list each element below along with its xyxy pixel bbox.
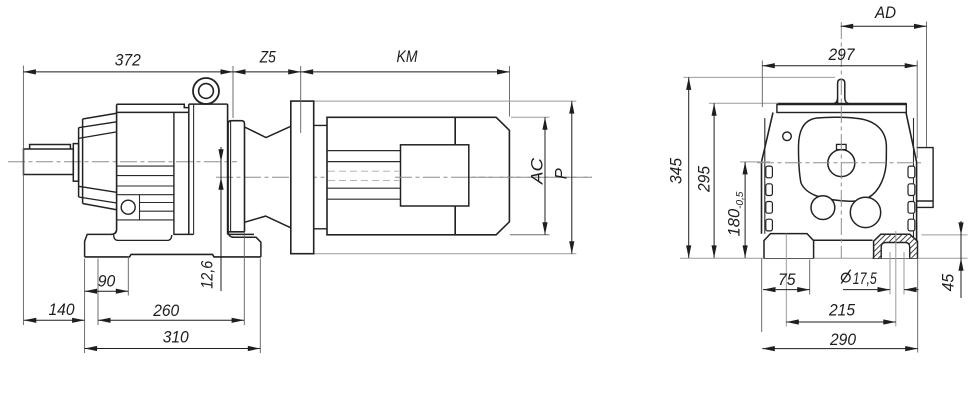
body outline right bbox=[906, 113, 917, 241]
svg-text:12,6: 12,6 bbox=[199, 260, 217, 289]
svg-text:17,5: 17,5 bbox=[853, 270, 878, 288]
svg-text:345: 345 bbox=[668, 157, 686, 184]
housing inner wall bbox=[173, 112, 175, 235]
ground extension line bbox=[680, 257, 968, 259]
left foot bolt centerline bbox=[785, 234, 787, 327]
dimension 90 bbox=[85, 290, 129, 292]
side tabs right bbox=[908, 166, 915, 231]
bearing cover face bbox=[78, 128, 80, 197]
oil plug box bbox=[139, 195, 141, 220]
housing rib lines bbox=[117, 166, 174, 220]
dimension 297 bbox=[762, 65, 917, 67]
cover blob bbox=[798, 117, 886, 201]
dimension 45 bbox=[960, 221, 962, 298]
dimension d17,5 bbox=[843, 289, 919, 291]
small plug circle bbox=[783, 132, 792, 141]
right boss bolt centerline bbox=[895, 231, 897, 327]
dimension 75 bbox=[763, 289, 810, 291]
motor cooling fins bbox=[327, 151, 401, 200]
fan cover bbox=[455, 117, 509, 235]
svg-text:90: 90 bbox=[98, 273, 116, 291]
centerline: output shaft axis bbox=[8, 161, 237, 163]
lower-right shaft boss bbox=[850, 197, 880, 227]
ground line dark segments under feet bbox=[764, 257, 918, 259]
housing bottom line over foot bbox=[114, 235, 172, 240]
svg-text:75: 75 bbox=[778, 271, 796, 289]
svg-text:KM: KM bbox=[397, 48, 418, 66]
extension lines bbox=[22, 66, 24, 326]
dimension KM bbox=[301, 71, 510, 73]
terminal box bbox=[401, 145, 469, 206]
svg-text:290: 290 bbox=[829, 331, 857, 349]
centerline: motor axis bbox=[216, 176, 592, 178]
motor flange edge behind (right side) bbox=[917, 148, 934, 208]
right foot bolt boss (sectioned) bbox=[874, 234, 918, 258]
key notch on output bore bbox=[837, 144, 847, 149]
bell cone top profile bbox=[245, 126, 291, 137]
inner wall lines bbox=[764, 118, 766, 234]
cone slants to housing (top) bbox=[83, 113, 117, 119]
dimension 215 bbox=[786, 321, 896, 323]
dimension 345 bbox=[688, 77, 690, 258]
boss hatching bbox=[850, 234, 936, 259]
dimension AC bbox=[544, 117, 546, 235]
dimension 295 bbox=[713, 103, 715, 258]
svg-text:AC: AC bbox=[529, 158, 547, 185]
dimension 12,6 axis offset bbox=[220, 147, 222, 291]
dimension AD bbox=[841, 25, 927, 27]
extension lines bbox=[684, 76, 836, 78]
vertical centerline through breather and output bore bbox=[840, 22, 842, 258]
output shaft body bbox=[24, 149, 74, 175]
output shaft bore circle bbox=[828, 150, 855, 177]
bell cone bottom profile bbox=[245, 216, 291, 228]
boss counterbore cavity bbox=[881, 243, 910, 259]
housing rear wall lines bbox=[188, 104, 190, 234]
left foot block bbox=[764, 234, 814, 259]
horizontal centerline through bores bbox=[757, 162, 921, 164]
body / fan cover boundary bbox=[454, 117, 456, 235]
motor spigot step bbox=[314, 125, 327, 228]
output shaft key bbox=[30, 145, 71, 150]
svg-text:Z5: Z5 bbox=[259, 49, 277, 67]
top cover strip bbox=[777, 104, 906, 113]
svg-text:P: P bbox=[553, 168, 571, 179]
svg-text:215: 215 bbox=[828, 302, 856, 320]
dimension Z5 bbox=[233, 71, 301, 73]
body outline left bbox=[762, 113, 774, 234]
cone slants to housing (bottom) bbox=[79, 186, 117, 192]
dimension 310 bbox=[85, 348, 261, 350]
adapter flange plate bbox=[228, 121, 244, 232]
oil plug circle bbox=[121, 200, 135, 214]
motor flange plate bbox=[291, 101, 314, 254]
breather vent bbox=[834, 79, 848, 103]
dimension 372 bbox=[23, 71, 233, 73]
rotor hidden line bbox=[328, 170, 399, 172]
gearbox foot bbox=[85, 234, 254, 257]
svg-text:297: 297 bbox=[828, 46, 856, 64]
foot bottom with recess bbox=[85, 254, 261, 257]
dimension 180-0,5 bbox=[744, 162, 746, 258]
bearing cover flange face bbox=[82, 119, 84, 204]
motor centerline over box bbox=[395, 176, 592, 178]
shaft collar bbox=[73, 144, 78, 182]
svg-text:372: 372 bbox=[115, 51, 141, 69]
svg-text:295: 295 bbox=[696, 165, 714, 193]
side tabs left bbox=[766, 166, 773, 231]
housing top strip bbox=[117, 104, 189, 112]
bolt hole edge extensions bbox=[890, 252, 904, 295]
body bottom between feet bbox=[814, 239, 873, 241]
svg-text:AD: AD bbox=[874, 4, 896, 22]
eyebolt ring bbox=[193, 78, 219, 104]
dimension 290 bbox=[762, 348, 917, 350]
dimension 260 bbox=[98, 319, 244, 321]
svg-text:310: 310 bbox=[163, 329, 190, 347]
ribs right of plug box bbox=[140, 203, 174, 212]
adapter foot bracket bbox=[228, 232, 261, 257]
lower-left shaft boss bbox=[811, 196, 835, 220]
housing front face bbox=[111, 104, 117, 234]
svg-text:45: 45 bbox=[940, 273, 958, 291]
svg-text:260: 260 bbox=[152, 302, 180, 320]
adapter plate inner line bbox=[230, 121, 232, 231]
dimension 140 bbox=[24, 319, 85, 321]
svg-text:140: 140 bbox=[49, 301, 76, 319]
motor body bbox=[327, 117, 455, 235]
dimension P bbox=[571, 101, 573, 254]
